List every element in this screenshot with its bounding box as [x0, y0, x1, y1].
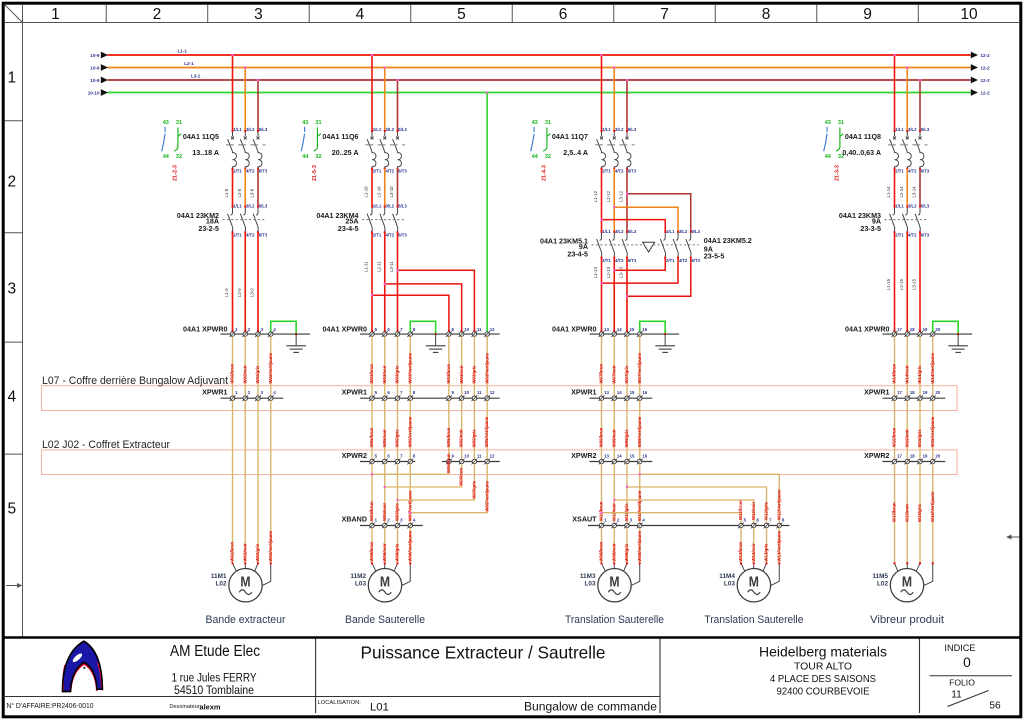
- contactor KM3 04A1 23KM3: [839, 204, 930, 238]
- svg-text:43: 43: [825, 120, 831, 126]
- svg-text:5/L3: 5/L3: [628, 229, 637, 234]
- svg-text:W13/Vert/jaune: W13/Vert/jaune: [776, 530, 781, 561]
- svg-text:W15/gris: W15/gris: [917, 429, 922, 448]
- wire bus taps to breaker Q6: [371, 54, 399, 131]
- svg-text:43: 43: [163, 120, 169, 126]
- svg-text:4: 4: [7, 388, 16, 405]
- terminal strip XPWR1 terminals 13-16: [571, 388, 652, 401]
- contactor KM2 04A1 23KM2: [177, 204, 268, 238]
- svg-text:56: 56: [989, 701, 1001, 712]
- terminal strip 04A1 XPWR0 terminals 1-4: [183, 326, 310, 338]
- svg-text:32: 32: [315, 154, 321, 160]
- svg-text:W05/brun: W05/brun: [369, 427, 374, 447]
- svg-text:10-9: 10-9: [90, 78, 100, 83]
- svg-text:L1-1: L1-1: [178, 49, 188, 54]
- svg-text:04A1 XPWR0: 04A1 XPWR0: [552, 326, 596, 334]
- wire green PE drop from bus to XPWR0-12: [486, 91, 488, 332]
- svg-text:XSAUT: XSAUT: [572, 516, 597, 524]
- svg-text:3/L2: 3/L2: [246, 127, 255, 132]
- wire Q5 to KM2 with labels L1-8 L2-8 L3-8: [224, 169, 258, 207]
- svg-text:W03/noir: W03/noir: [459, 365, 464, 383]
- svg-text:LOCALISATION:: LOCALISATION:: [318, 700, 362, 706]
- svg-text:0,40..0,63 A: 0,40..0,63 A: [842, 149, 881, 157]
- svg-text:2/T1: 2/T1: [666, 258, 675, 263]
- svg-text:18: 18: [910, 327, 915, 332]
- svg-text:2: 2: [7, 173, 16, 190]
- svg-text:4/T2: 4/T2: [679, 258, 688, 263]
- svg-text:6/T3: 6/T3: [259, 233, 268, 238]
- svg-text:W05/gris: W05/gris: [395, 429, 400, 448]
- svg-text:1/L1: 1/L1: [233, 127, 242, 132]
- cable XSAUT to motor 11M3 W08: [599, 528, 642, 564]
- svg-text:W02/noir: W02/noir: [242, 365, 247, 383]
- motor leads 11M5: [894, 562, 934, 586]
- motor M 11M1: [211, 569, 262, 602]
- svg-text:L3-15: L3-15: [912, 278, 917, 290]
- svg-text:3/L2: 3/L2: [679, 229, 688, 234]
- svg-text:3/L2: 3/L2: [908, 204, 917, 209]
- title block frame: [3, 638, 1021, 714]
- svg-text:6/T3: 6/T3: [691, 258, 700, 263]
- svg-text:M: M: [380, 574, 390, 590]
- terminal strip XPWR2 terminals 13-16: [571, 452, 652, 465]
- svg-text:L3-10: L3-10: [389, 186, 394, 198]
- svg-text:L1-8: L1-8: [224, 188, 229, 197]
- PE jumper green XPWR0-16 to ground: [640, 321, 666, 335]
- svg-text:17: 17: [897, 454, 902, 459]
- svg-text:W05/Vert/jaune: W05/Vert/jaune: [484, 480, 489, 511]
- svg-text:8: 8: [762, 6, 771, 23]
- svg-text:3/L2: 3/L2: [385, 127, 394, 132]
- svg-text:3/L2: 3/L2: [908, 127, 917, 132]
- ground symbol branch 1: [286, 334, 306, 352]
- svg-text:10-9: 10-9: [90, 66, 100, 71]
- svg-text:W14/noir: W14/noir: [904, 365, 909, 383]
- svg-text:04A1 11Q7: 04A1 11Q7: [552, 133, 588, 141]
- svg-text:W06/Vert/jaune: W06/Vert/jaune: [407, 530, 412, 561]
- svg-text:20: 20: [935, 390, 940, 395]
- svg-text:11M3: 11M3: [580, 573, 596, 580]
- svg-text:W02/gris: W02/gris: [255, 365, 260, 384]
- svg-text:W15/brun: W15/brun: [892, 502, 897, 522]
- svg-text:TOUR ALTO: TOUR ALTO: [794, 662, 852, 673]
- svg-text:2: 2: [153, 6, 162, 23]
- svg-text:Bande Sauterelle: Bande Sauterelle: [345, 614, 425, 626]
- svg-text:XBAND: XBAND: [342, 516, 367, 524]
- svg-text:W05/Vert/jaune: W05/Vert/jaune: [407, 416, 412, 447]
- svg-text:W03/noir: W03/noir: [382, 365, 387, 383]
- contactor KM5.1 04A1 23KM5.1: [540, 229, 699, 263]
- terminal strip 04A1 XPWR0 terminals 5-12: [323, 326, 500, 338]
- svg-text:2,5..4 A: 2,5..4 A: [563, 149, 588, 157]
- svg-text:4/T2: 4/T2: [246, 233, 255, 238]
- svg-text:alexm: alexm: [200, 702, 221, 711]
- row ruler numbers 1-5: [5, 69, 23, 517]
- zone band L02 label: [42, 439, 170, 451]
- svg-text:L02 J02 - Coffret Extracteur: L02 J02 - Coffret Extracteur: [42, 439, 170, 451]
- bus line L1: [90, 49, 990, 59]
- svg-text:L3-14: L3-14: [912, 186, 917, 198]
- svg-text:L01: L01: [370, 702, 389, 714]
- svg-text:W05/brun: W05/brun: [446, 427, 451, 447]
- svg-text:W11/gris: W11/gris: [624, 503, 629, 521]
- stair jumpers XPWR2 13-16 to XSAUT 5-8: [600, 473, 781, 523]
- stair jumpers XPWR2 9-12 into XBAND drops: [371, 453, 489, 514]
- svg-text:04A1 XPWR0: 04A1 XPWR0: [845, 326, 889, 334]
- svg-text:11: 11: [477, 390, 482, 395]
- bus line L2: [90, 61, 990, 71]
- svg-text:10: 10: [960, 6, 978, 23]
- svg-text:5: 5: [7, 500, 16, 517]
- svg-text:13: 13: [604, 327, 609, 332]
- svg-text:W15/brun: W15/brun: [892, 427, 897, 447]
- circuit breaker Q8 04A1 11Q8: [842, 127, 930, 173]
- svg-text:3: 3: [7, 280, 16, 297]
- svg-text:43: 43: [532, 120, 538, 126]
- right fold arrow: [1006, 535, 1020, 540]
- svg-text:Bungalow de commande: Bungalow de commande: [524, 700, 657, 714]
- svg-text:XPWR1: XPWR1: [342, 388, 367, 396]
- svg-text:W02/brun: W02/brun: [230, 364, 235, 384]
- svg-text:XPWR1: XPWR1: [571, 388, 596, 396]
- title block drawing title: [318, 643, 658, 714]
- svg-text:44: 44: [825, 154, 832, 160]
- svg-text:21-2-3: 21-2-3: [172, 165, 178, 181]
- svg-text:1: 1: [51, 6, 60, 23]
- svg-text:W03/gris: W03/gris: [395, 365, 400, 384]
- svg-text:5/L3: 5/L3: [398, 204, 407, 209]
- svg-text:2/T1: 2/T1: [233, 168, 242, 173]
- svg-text:23-2-5: 23-2-5: [198, 225, 219, 233]
- svg-text:W11/brun: W11/brun: [599, 501, 604, 521]
- cable XBAND to motor 11M2 W06: [369, 528, 412, 564]
- svg-text:44: 44: [302, 154, 309, 160]
- svg-text:L07 - Coffre derrière Bungalow: L07 - Coffre derrière Bungalow Adjuvant: [42, 375, 229, 387]
- wire bus taps to breaker Q5: [231, 54, 259, 131]
- cable XPWR2 to XBAND branch 2: [369, 464, 412, 524]
- svg-text:11M4: 11M4: [719, 573, 735, 580]
- left fold arrow: [6, 583, 22, 588]
- svg-text:1/L1: 1/L1: [373, 127, 382, 132]
- svg-text:23-4-5: 23-4-5: [567, 250, 588, 258]
- svg-text:19: 19: [923, 454, 928, 459]
- svg-text:15: 15: [630, 454, 635, 459]
- svg-text:12-2: 12-2: [981, 78, 991, 83]
- svg-text:5/L3: 5/L3: [628, 127, 637, 132]
- svg-text:04A1 11Q8: 04A1 11Q8: [845, 133, 881, 141]
- terminal strip 04A1 XPWR0 terminals 13-16: [552, 326, 679, 338]
- svg-text:2/T1: 2/T1: [373, 233, 382, 238]
- svg-text:W08/Vert/jaune: W08/Vert/jaune: [637, 530, 642, 561]
- svg-text:L2-15: L2-15: [899, 278, 904, 290]
- svg-text:2/T1: 2/T1: [602, 258, 611, 263]
- svg-text:4/T2: 4/T2: [908, 233, 917, 238]
- svg-text:2/T1: 2/T1: [602, 168, 611, 173]
- svg-text:L3-1: L3-1: [191, 74, 201, 79]
- svg-text:W07/noir: W07/noir: [611, 365, 616, 383]
- svg-text:10: 10: [464, 327, 469, 332]
- svg-text:04A1 XPWR0: 04A1 XPWR0: [323, 326, 367, 334]
- wire bus taps to breaker Q7: [600, 54, 628, 131]
- svg-text:L02: L02: [877, 581, 888, 588]
- svg-text:W05/gris: W05/gris: [472, 429, 477, 448]
- svg-text:15: 15: [630, 390, 635, 395]
- svg-text:W05/noir: W05/noir: [382, 429, 387, 447]
- svg-text:16: 16: [642, 454, 647, 459]
- svg-text:54510 Tomblaine: 54510 Tomblaine: [174, 683, 254, 697]
- cable XPWR2 to XSAUT branch 3 W11: [599, 464, 642, 524]
- jumper wires KM5.2 load side to phase wires: [600, 258, 690, 298]
- svg-text:14: 14: [617, 390, 622, 395]
- svg-text:04A1 XPWR0: 04A1 XPWR0: [183, 326, 227, 334]
- circuit breaker Q6 aux contacts: [301, 120, 321, 181]
- svg-text:10: 10: [464, 454, 469, 459]
- wire Q7 to KM5.1 with labels L1-12 L2-12 L3-12: [593, 169, 627, 232]
- zone band L02: [42, 450, 958, 475]
- svg-text:18: 18: [910, 454, 915, 459]
- svg-text:1/L1: 1/L1: [602, 127, 611, 132]
- svg-text:13: 13: [604, 454, 609, 459]
- svg-text:5/L3: 5/L3: [259, 204, 268, 209]
- svg-text:L1-15: L1-15: [886, 278, 891, 290]
- svg-text:6/T3: 6/T3: [921, 168, 930, 173]
- svg-text:12-2: 12-2: [981, 66, 991, 71]
- cable XPWR1 to XPWR2 branch 5 W15: [892, 400, 935, 459]
- svg-text:1/L1: 1/L1: [895, 204, 904, 209]
- svg-text:44: 44: [163, 154, 170, 160]
- svg-text:Vibreur produit: Vibreur produit: [870, 614, 945, 626]
- ground symbol branch 2: [426, 334, 446, 352]
- circuit breaker Q7 04A1 11Q7: [552, 127, 637, 173]
- svg-text:XPWR1: XPWR1: [864, 388, 889, 396]
- svg-text:16: 16: [642, 390, 647, 395]
- svg-text:0: 0: [963, 655, 971, 670]
- terminal strip XPWR2 terminals 17-20: [864, 452, 945, 465]
- svg-text:L2-11: L2-11: [376, 261, 381, 272]
- svg-text:L2-9: L2-9: [237, 288, 242, 297]
- svg-text:M: M: [240, 574, 250, 590]
- svg-text:W12/brun: W12/brun: [738, 500, 743, 520]
- svg-text:16: 16: [642, 327, 647, 332]
- motor leads 11M4: [740, 562, 780, 586]
- svg-text:14: 14: [617, 454, 622, 459]
- svg-text:31: 31: [838, 120, 844, 126]
- svg-text:3/L2: 3/L2: [246, 204, 255, 209]
- svg-text:L2-1: L2-1: [184, 61, 194, 66]
- svg-text:Bande extracteur: Bande extracteur: [206, 614, 286, 626]
- svg-text:L3-12: L3-12: [619, 190, 624, 202]
- svg-text:11: 11: [477, 454, 482, 459]
- svg-text:L2-10: L2-10: [376, 186, 381, 198]
- cable XPWR1 to motor 11M1 W02: [230, 400, 273, 563]
- svg-text:17: 17: [897, 390, 902, 395]
- svg-text:19: 19: [923, 327, 928, 332]
- svg-text:4: 4: [356, 6, 365, 23]
- svg-text:6: 6: [559, 6, 568, 23]
- svg-text:1/L1: 1/L1: [666, 229, 675, 234]
- jumper wires to KM5.2 line side: [600, 193, 690, 232]
- svg-text:L3-8: L3-8: [250, 188, 255, 197]
- title block customer cell: [759, 644, 887, 697]
- cable XSAUT 5-8 to motor 11M4 W13: [738, 528, 781, 564]
- svg-text:6/T3: 6/T3: [398, 168, 407, 173]
- svg-text:5: 5: [457, 6, 466, 23]
- svg-text:L03: L03: [355, 581, 366, 588]
- svg-text:L2-14: L2-14: [899, 186, 904, 198]
- svg-text:2/T1: 2/T1: [895, 233, 904, 238]
- column ruler numbers 1-10: [51, 5, 978, 24]
- svg-text:20: 20: [935, 454, 940, 459]
- svg-text:4/T2: 4/T2: [615, 168, 624, 173]
- terminal strip XPWR1 terminals 1-4: [202, 388, 283, 401]
- svg-text:32: 32: [545, 154, 551, 160]
- svg-text:W02/brun: W02/brun: [230, 542, 235, 562]
- circuit breaker Q5 aux contacts: [162, 120, 182, 181]
- motor M 11M3: [580, 569, 631, 602]
- svg-text:W15/Vert/jaune: W15/Vert/jaune: [930, 416, 935, 447]
- svg-text:L1-13: L1-13: [593, 266, 598, 278]
- svg-text:23-5-5: 23-5-5: [704, 252, 725, 260]
- terminal strip XBAND terminals 1-4: [342, 516, 423, 529]
- svg-text:19: 19: [923, 390, 928, 395]
- svg-text:04A1 11Q6: 04A1 11Q6: [322, 133, 358, 141]
- svg-text:6/T3: 6/T3: [398, 233, 407, 238]
- svg-text:12-2: 12-2: [981, 91, 991, 96]
- svg-text:W03/Vert/jaune: W03/Vert/jaune: [407, 352, 412, 383]
- caption Translation Sauterelle branch 4: [704, 614, 803, 626]
- terminal strip 04A1 XPWR0 terminals 17-20: [845, 326, 972, 338]
- svg-text:N° D'AFFAIRE:PR2406-0010: N° D'AFFAIRE:PR2406-0010: [7, 701, 94, 710]
- svg-text:5/L3: 5/L3: [921, 204, 930, 209]
- circuit breaker Q5 04A1 11Q5: [183, 127, 268, 173]
- svg-text:6/T3: 6/T3: [921, 233, 930, 238]
- svg-text:W13/brun: W13/brun: [738, 542, 743, 562]
- cable XPWR0 to XPWR1 branch 5 W14: [892, 336, 935, 396]
- svg-text:W14/gris: W14/gris: [917, 365, 922, 384]
- svg-text:17: 17: [897, 327, 902, 332]
- svg-text:3/L2: 3/L2: [615, 229, 624, 234]
- svg-text:21-3-3: 21-3-3: [834, 165, 840, 181]
- svg-text:12-2: 12-2: [981, 53, 991, 58]
- caption Translation Sauterelle branch 3: [565, 614, 664, 626]
- svg-text:W02/Vert/jaune: W02/Vert/jaune: [268, 352, 273, 383]
- svg-text:04A1 11Q5: 04A1 11Q5: [183, 133, 219, 141]
- svg-text:W13/gris: W13/gris: [764, 543, 769, 562]
- svg-text:9: 9: [863, 6, 872, 23]
- svg-text:W09/gris: W09/gris: [624, 429, 629, 448]
- motor leads 11M1: [232, 562, 272, 586]
- svg-text:W07/brun: W07/brun: [599, 364, 604, 384]
- svg-text:4/T2: 4/T2: [615, 258, 624, 263]
- svg-text:L1-11: L1-11: [364, 261, 369, 272]
- svg-text:W08/noir: W08/noir: [611, 543, 616, 561]
- svg-text:31: 31: [545, 120, 551, 126]
- svg-text:Translation Sauterelle: Translation Sauterelle: [565, 614, 664, 626]
- contactor KM5.2 04A1 23KM5.2: [660, 229, 751, 263]
- svg-text:1/L1: 1/L1: [602, 229, 611, 234]
- circuit breaker Q7 aux contacts: [531, 120, 551, 181]
- cable XPWR1 to XPWR2 branch 3 W09: [599, 400, 642, 459]
- svg-text:3: 3: [254, 6, 263, 23]
- svg-text:W03/gris: W03/gris: [472, 365, 477, 384]
- terminal strip XPWR1 terminals 5-12: [342, 388, 500, 401]
- PE jumper green XPWR0-20 to ground: [933, 321, 959, 335]
- svg-text:W12/Vert/jaune: W12/Vert/jaune: [776, 489, 781, 520]
- title block indice folio cell: [930, 643, 1013, 712]
- svg-text:W05/gris: W05/gris: [395, 502, 400, 521]
- svg-text:W12/gris: W12/gris: [764, 501, 769, 520]
- svg-text:W05/Vert/jaune: W05/Vert/jaune: [407, 490, 412, 521]
- svg-text:W05/Vert/jaune: W05/Vert/jaune: [484, 416, 489, 447]
- cable XPWR0 to XPWR1 branch 2 W03: [369, 336, 489, 396]
- wire bus taps to breaker Q8: [893, 54, 921, 131]
- svg-text:92400 COURBEVOIE: 92400 COURBEVOIE: [777, 687, 870, 698]
- svg-text:3/L2: 3/L2: [615, 127, 624, 132]
- svg-text:4/T2: 4/T2: [908, 168, 917, 173]
- svg-text:32: 32: [176, 154, 182, 160]
- motor leads 11M3: [601, 562, 641, 586]
- svg-text:W03/brun: W03/brun: [446, 364, 451, 384]
- motor leads 11M2: [371, 562, 411, 586]
- cable XPWR2 to motor 11M5 W15: [892, 464, 935, 564]
- svg-text:M: M: [749, 574, 759, 590]
- bus line PE: [88, 89, 990, 96]
- svg-text:L2-12: L2-12: [606, 190, 611, 202]
- svg-text:XPWR1: XPWR1: [202, 388, 227, 396]
- ground symbol branch 3: [655, 334, 675, 352]
- svg-text:XPWR2: XPWR2: [571, 452, 596, 460]
- svg-text:31: 31: [315, 120, 321, 126]
- svg-text:W08/brun: W08/brun: [599, 542, 604, 562]
- svg-text:W12/noir: W12/noir: [751, 502, 756, 520]
- svg-text:7: 7: [660, 6, 669, 23]
- svg-text:15: 15: [630, 327, 635, 332]
- svg-text:10-10: 10-10: [88, 91, 100, 96]
- bus line L3: [90, 74, 990, 84]
- svg-text:L3-13: L3-13: [619, 266, 624, 278]
- svg-text:L3-9: L3-9: [250, 288, 255, 297]
- svg-text:W14/Vert/jaune: W14/Vert/jaune: [930, 352, 935, 383]
- svg-text:XPWR2: XPWR2: [864, 452, 889, 460]
- svg-text:FOLIO: FOLIO: [949, 678, 975, 688]
- svg-text:6/T3: 6/T3: [628, 258, 637, 263]
- terminal strip XSAUT terminals 1-8: [572, 516, 789, 529]
- wire KM2 to XPWR0 with labels L1-9 L2-9 L3-9: [224, 232, 259, 332]
- svg-text:W02/Vert/jaune: W02/Vert/jaune: [268, 530, 273, 561]
- PE jumper green XPWR0-8 to ground: [410, 321, 436, 335]
- jumper wires KM4 output to XPWR0 9-11: [371, 269, 476, 332]
- motor M 11M5: [872, 569, 923, 602]
- mechanical interlock triangle: [643, 242, 655, 252]
- svg-text:2/T1: 2/T1: [373, 168, 382, 173]
- caption Vibreur produit: [870, 614, 945, 626]
- svg-text:W09/Vert/jaune: W09/Vert/jaune: [637, 416, 642, 447]
- svg-text:1: 1: [7, 69, 16, 86]
- svg-text:W08/gris: W08/gris: [624, 543, 629, 562]
- svg-text:W06/brun: W06/brun: [369, 542, 374, 562]
- PE jumper green XPWR0-4 to ground: [271, 321, 297, 335]
- svg-text:W15/noir: W15/noir: [904, 429, 909, 447]
- svg-text:W03/Vert/jaune: W03/Vert/jaune: [484, 352, 489, 383]
- svg-text:W15/noir: W15/noir: [904, 504, 909, 522]
- svg-text:W06/gris: W06/gris: [395, 543, 400, 562]
- ground symbol branch 5: [948, 334, 968, 352]
- circuit breaker Q6 04A1 11Q6: [322, 127, 407, 173]
- svg-text:AM Etude Elec: AM Etude Elec: [170, 643, 260, 660]
- svg-text:4/T2: 4/T2: [385, 168, 394, 173]
- svg-text:W05/gris: W05/gris: [472, 480, 477, 499]
- svg-text:INDICE: INDICE: [944, 643, 975, 653]
